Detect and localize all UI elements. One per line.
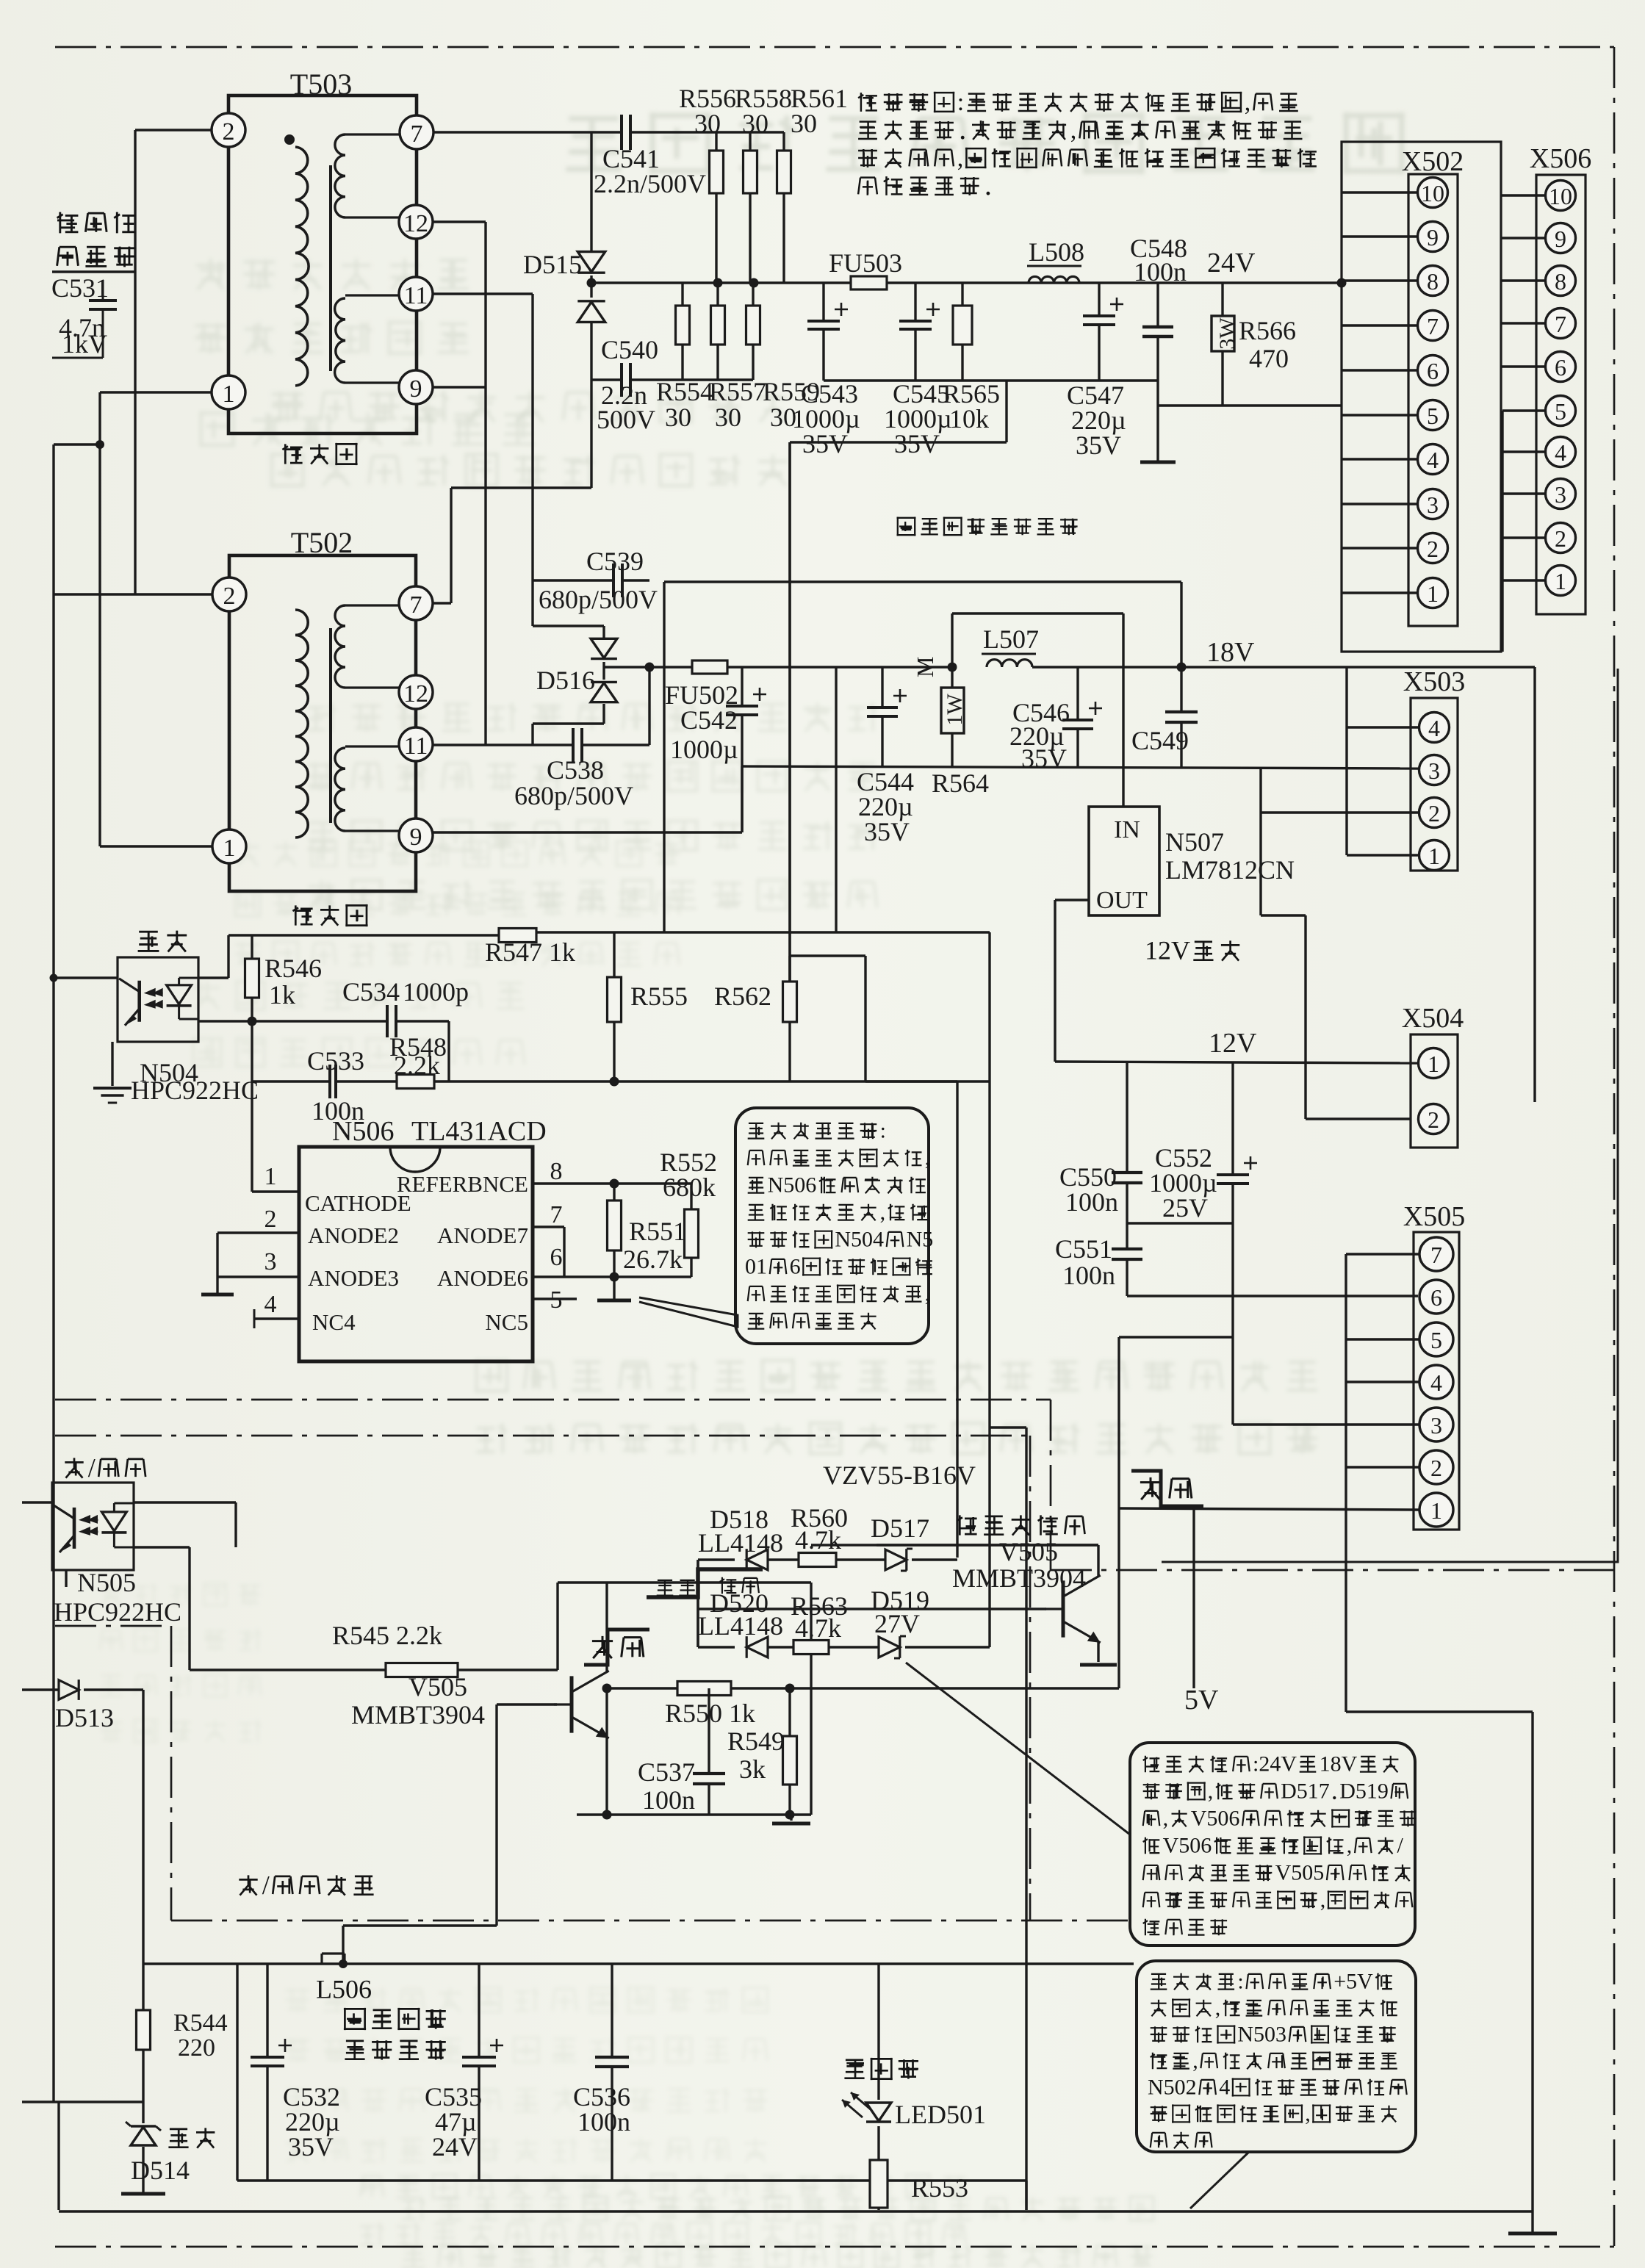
label stabilize [138,932,159,951]
zener D514 regulator [131,2125,156,2127]
capacitor C537 [708,1688,710,1774]
junction D515 bus [587,278,597,288]
svg-text:9: 9 [410,824,422,851]
label switch above V505 [592,1636,613,1658]
svg-text:9: 9 [1427,224,1439,251]
X502 pin 1 [1418,578,1448,608]
fuse FU502 [692,660,727,674]
svg-text:MMBT3904: MMBT3904 [351,1700,485,1729]
svg-text:12: 12 [403,210,428,237]
capacitor C534 [386,1005,389,1037]
resistor R553 [870,2160,888,2208]
branch to bottom net [990,1426,1026,1428]
svg-text:9: 9 [410,375,422,403]
transformer T503 box [228,96,417,433]
N506 pin4 stub [254,1317,299,1320]
svg-text:220: 220 [178,2034,215,2062]
bottom long return [59,2210,1533,2212]
wire into N505 [22,1501,52,1503]
link C550 C552 [1127,1222,1233,1224]
label on/off opto [65,1458,83,1477]
V506 emitter ground [1097,1641,1099,1662]
sample line to R547 [228,934,499,936]
svg-text:NC5: NC5 [485,1309,528,1335]
feedback right corner down to D517 chain [956,1081,958,1558]
wire R566 bottom to connector [1158,404,1342,406]
callout tail 1 [906,1663,1130,1835]
wire T503 pin1 to left rail [100,391,212,393]
svg-text:6: 6 [1430,1284,1442,1311]
X502 pin 6 wire [1342,369,1418,371]
svg-text:N505: N505 [77,1568,136,1597]
wire T502 pin11 line with C538 [433,744,573,746]
sample line continues [536,931,990,933]
wire N505 right top [134,1501,236,1503]
svg-text:1k: 1k [269,980,295,1009]
wire left to R544 D514 node [22,2100,143,2103]
maintenance hint text [858,93,877,112]
svg-text:2: 2 [223,118,235,145]
svg-text:X504: X504 [1402,1003,1464,1034]
N506 pin8 reference wire [533,1182,691,1184]
junction 24V node [1337,278,1347,288]
resistor R565 [961,283,963,306]
divider dash-dot upper [55,1399,1051,1401]
capacitor C547 [1098,283,1100,316]
return wire to T502 pin9 [433,831,742,833]
X504 pin 2 [1419,1104,1449,1134]
svg-text:ANODE7: ANODE7 [437,1223,528,1248]
svg-text:1: 1 [1428,843,1440,869]
svg-text:12: 12 [403,680,428,708]
svg-text:LM7812CN: LM7812CN [1165,855,1295,885]
svg-text:R562: R562 [714,982,771,1011]
T503 primary winding [295,147,309,386]
collector line drop right [810,1583,812,1815]
junction L507 node [948,663,957,672]
svg-text:7: 7 [1427,313,1439,339]
T503 pin 1 [212,375,245,409]
overvoltage protect labels [957,1515,976,1535]
12V rail [1055,1062,1419,1063]
junction dots on bus [713,278,723,288]
svg-text:12V: 12V [1209,1028,1257,1059]
X505 pin4 stub [1346,1380,1419,1383]
X502 pin 8 wire [1342,279,1418,281]
V506 base line [698,1558,735,1560]
svg-text:6: 6 [550,1244,563,1271]
X505 left bus [1345,1254,1347,1712]
svg-text:3: 3 [1427,492,1439,518]
svg-text:N507: N507 [1165,827,1224,857]
sampling feed from C542 node [788,442,791,982]
X506 pin 5 wire [1502,409,1546,411]
X503 pin 4 [1419,713,1450,743]
svg-text:CATHODE: CATHODE [305,1190,411,1216]
X502 pin 2 wire [1342,547,1418,549]
svg-text:4: 4 [1427,447,1439,473]
svg-text:1000p: 1000p [403,977,469,1007]
svg-text:C533: C533 [307,1046,364,1076]
svg-text:2: 2 [1555,525,1566,552]
svg-text:3: 3 [1428,757,1440,784]
connector X503 box [1411,698,1458,871]
X505 pin7 stub [1346,1253,1419,1255]
svg-text:4: 4 [1219,2076,1230,2100]
R551 R552 bottom link [564,1275,691,1278]
X502 pin 6 [1418,356,1448,386]
X503 pin 3 [1419,755,1450,785]
T502 secondary winding upper [345,604,400,606]
svg-text:1: 1 [1428,1051,1439,1077]
X502 pin 7 [1418,311,1448,341]
T503 secondary winding lower [345,294,399,296]
svg-text:3: 3 [264,1248,277,1275]
T503 secondary winding upper [345,133,400,135]
wire N505 right bottom to R545 [134,1546,190,1548]
V505 emitter down [605,1737,608,1815]
svg-text:V505: V505 [1275,1861,1325,1885]
svg-text:8: 8 [550,1158,563,1185]
svg-text:,: , [1305,2102,1311,2126]
resistor R547 [499,929,536,943]
svg-text:,: , [1163,1807,1169,1831]
svg-text:1: 1 [264,1163,277,1190]
IC N506 TL431ACD box [299,1147,533,1361]
T502 primary winding [295,610,308,838]
svg-text:470: 470 [1249,344,1289,373]
rounded callout box regulation control [735,1108,929,1344]
svg-text:4.7k: 4.7k [795,1613,841,1643]
svg-text:35V: 35V [802,429,848,458]
svg-text:35V: 35V [288,2132,334,2161]
svg-text:NC4: NC4 [312,1309,356,1335]
X503 pin4 feed [1345,667,1347,855]
svg-text:M: M [912,657,938,677]
T502 pin 11 [399,727,433,761]
svg-text:4.7k: 4.7k [795,1525,841,1555]
svg-text:N504: N504 [835,1228,884,1252]
X503 pin2 feed [1259,768,1261,915]
svg-text:7: 7 [410,591,422,619]
svg-text:V506: V506 [1163,1834,1212,1858]
wire N504 right bottom cathode line [198,1020,387,1022]
connector X504 box [1411,1034,1458,1148]
wire rect top to N507 IN [952,612,1123,614]
svg-text:N503: N503 [1237,2023,1286,2047]
X506 pin 4 [1546,437,1576,467]
svg-text:R553: R553 [911,2173,968,2203]
svg-text:D516: D516 [536,666,595,695]
svg-text:C551: C551 [1055,1234,1112,1264]
N506 pin2 pin3 ground bracket [217,1231,299,1234]
N506 pin5 stub [533,1297,577,1300]
resistor R551 [610,1179,619,1189]
ground return line mid [577,1813,811,1815]
wire T503 pin2 left and down [135,129,212,131]
wire 24V to connector [1158,281,1342,284]
svg-text:HPC922HC: HPC922HC [54,1597,181,1627]
ground under R551 [613,1277,615,1299]
svg-text:30: 30 [742,109,768,138]
svg-text:5: 5 [1555,398,1566,425]
callout tail 2 [1190,2152,1249,2208]
wire T502 pin2 line [53,593,212,595]
label transformer T503 [282,444,302,464]
X505 pin 5 [1419,1322,1453,1356]
left rail down [52,444,54,2102]
svg-text:,: , [1245,89,1251,116]
V506 collector up [1097,1545,1099,1577]
svg-text:T503: T503 [290,68,352,101]
X505 pin2 stub [1346,1466,1419,1468]
svg-text:R545 2.2k: R545 2.2k [332,1621,442,1650]
svg-text:8: 8 [1555,268,1566,295]
svg-text:C534: C534 [342,977,400,1007]
X506 pin 2 [1546,523,1576,553]
X506 pin 5 [1546,396,1576,426]
main low bus [143,1962,1134,1965]
V506 base wire [698,1608,1046,1610]
label secondary rectifier filter 2 [344,2008,366,2030]
X506 pin 9 [1546,223,1576,253]
X502 pin 3 wire [1342,503,1418,505]
resistor R545 [190,1668,386,1671]
svg-text:4: 4 [264,1291,277,1318]
svg-text:LED501: LED501 [895,2100,986,2129]
main 24V bus [591,281,851,284]
svg-text:30: 30 [715,403,741,432]
divider dash-dot bottom-left [55,1625,171,1627]
X506 pin 1 wire [1502,579,1546,581]
resistor R561 [782,132,785,151]
V505 collector [605,1583,608,1672]
X505 pin1 feed / 5V riser [1119,1336,1233,1338]
X502 pin 2 [1418,533,1448,564]
capacitor C540 on lower link [591,378,622,381]
svg-text:IN: IN [1114,816,1140,843]
capacitor C541 [620,115,623,150]
D516 mid tap to fuse node [604,666,649,668]
T502 pin 1 [212,829,246,863]
X504 feed [1261,914,1306,916]
page top dash-dot border [55,46,1614,48]
X502 pin 1 wire [1342,591,1418,594]
svg-text:2: 2 [1428,1106,1439,1133]
label switch kaiguan right [1140,1477,1161,1500]
ground under return line [790,1815,792,1821]
X502 pin 5 [1418,400,1448,431]
label spike pulse absorb [57,212,79,234]
svg-text:6: 6 [790,1255,801,1279]
svg-text:N506: N506 [768,1173,817,1198]
svg-text:3: 3 [1430,1412,1442,1439]
capacitor C551 [1112,1248,1142,1250]
svg-text:5: 5 [1430,1327,1442,1353]
D513 wire down [84,1688,143,1691]
wire T503 pin9 stub [433,386,486,388]
X502 pin 4 [1418,444,1448,475]
optocoupler N504 [118,957,198,1042]
page bottom dash-dot border [55,2246,1614,2248]
svg-text:30: 30 [791,109,817,138]
svg-text:,: , [925,1282,931,1306]
resistor R566 3W [1221,283,1223,316]
18V feeder from upper area [664,580,1181,583]
X505 pin 1 [1419,1493,1453,1527]
junction 18V [1177,663,1187,672]
capacitor C533 [328,1065,331,1098]
T503 core [329,165,332,371]
svg-text:24V: 24V [1207,248,1256,278]
ground rail right [1533,667,1536,1102]
wire pin7 T503 to C541 and resistors [433,131,622,133]
svg-text:35V: 35V [894,429,940,458]
svg-text::24V: :24V [1253,1752,1297,1776]
svg-text:+5V: +5V [1333,1970,1373,1994]
X505 pin3 feed [1233,1423,1419,1425]
svg-text:10: 10 [1549,183,1572,209]
svg-text:,: , [925,1146,931,1170]
capacitor C542 [741,667,743,706]
svg-text:D514: D514 [131,2156,190,2185]
svg-text:C537: C537 [638,1757,695,1787]
X502 pin 9 wire [1342,235,1418,237]
return drop to FU502 area [1005,381,1007,442]
svg-text:35V: 35V [1076,431,1121,460]
X506 pin 10 [1546,181,1576,211]
svg-text:1: 1 [1430,1497,1442,1524]
X502 pin 3 [1418,489,1448,519]
resistor R549 [785,1684,795,1693]
X506 pin 3 wire [1502,492,1546,494]
svg-text:500V: 500V [597,405,655,434]
LED arrows [842,2100,863,2117]
svg-text:1: 1 [1555,568,1566,594]
svg-text:X506: X506 [1530,143,1591,174]
capacitor C538 [572,728,575,762]
X506 pin 7 [1546,309,1576,339]
capacitor C544 [881,667,883,708]
svg-text:HPC922HC: HPC922HC [131,1076,259,1105]
svg-text:2: 2 [1430,1455,1442,1481]
svg-text:/: / [262,1871,270,1900]
svg-text:4: 4 [1555,439,1566,466]
svg-text:3W: 3W [1215,317,1239,350]
svg-text:8: 8 [1427,268,1439,295]
X505 pin 7 [1419,1237,1453,1271]
T503 pin 11 [399,277,433,311]
svg-text:VZV55-B16V: VZV55-B16V [823,1461,976,1490]
X505 pin 4 [1419,1365,1453,1399]
X505 pin5 stub [1346,1338,1419,1340]
svg-text::: : [957,89,964,116]
resistor R546 [251,935,253,959]
X505 pin 6 [1419,1280,1453,1314]
svg-text:R551: R551 [629,1217,686,1246]
X503 pin 1 [1419,840,1450,871]
svg-text:7: 7 [1430,1242,1442,1268]
svg-text:N502: N502 [1148,2076,1197,2100]
wire C531 top [52,270,135,273]
wire C538 node up to fuse node [648,667,650,745]
svg-text:X503: X503 [1403,666,1465,697]
svg-text:9: 9 [1555,226,1566,252]
svg-text:30: 30 [665,403,691,432]
filter box left [236,1964,238,2181]
svg-text:ANODE2: ANODE2 [308,1223,399,1248]
svg-text:D517: D517 [1281,1779,1330,1804]
resistor R562 [788,956,791,982]
svg-text:1000µ: 1000µ [670,735,738,764]
collector top line [558,1581,811,1583]
svg-text:680p/500V: 680p/500V [539,585,658,614]
N506 pin1 wire [252,1190,299,1192]
X503 pin 2 [1419,798,1450,828]
svg-text:D517: D517 [871,1513,929,1543]
X505 pin 2 [1419,1450,1453,1484]
svg-text::: : [880,1119,886,1143]
cable rectangle around X502 [1342,142,1501,652]
wire N507 OUT to 12V rail [1055,899,1089,901]
X506 pin 4 wire [1502,450,1546,453]
svg-text:7: 7 [550,1201,563,1228]
svg-text:R546: R546 [264,954,322,983]
stub left rail [54,443,100,445]
svg-text:R555: R555 [630,982,688,1011]
svg-text:R549: R549 [727,1727,785,1756]
X506 pin 1 [1546,566,1576,596]
lower protect chain wire [696,1560,699,1647]
svg-text:L508: L508 [1029,237,1084,267]
transformer T502 box [229,555,416,891]
X506 pin 8 wire [1501,279,1546,281]
svg-text:/: / [1397,1834,1404,1858]
inductor L506 bump [320,1954,323,1964]
svg-text:100n: 100n [642,1785,695,1815]
svg-text:C531: C531 [51,273,109,303]
wire C539 left jog to D516 [531,580,533,626]
X502 pin 9 [1418,222,1448,252]
bottom net riser [1025,2181,1027,2210]
svg-text:1W: 1W [943,694,967,726]
T503 pin 7 [400,115,433,149]
T503 pin 12 [399,205,433,239]
5V wire [607,1687,1119,1689]
LED501 indicator [877,1964,879,2100]
capacitor C552 [1231,1062,1234,1175]
svg-text:26.7k: 26.7k [623,1245,683,1274]
svg-text:V505: V505 [999,1537,1058,1566]
svg-text:LL4148: LL4148 [698,1611,783,1641]
R562 top jog [790,954,865,957]
X502 pin 10 wire [1342,191,1418,193]
svg-text:2: 2 [264,1206,277,1233]
svg-text:X502: X502 [1402,146,1464,177]
resistor R548 [397,1075,434,1089]
svg-text:,: , [1192,2049,1198,2073]
svg-text:1: 1 [223,835,236,862]
svg-text:100n: 100n [1065,1187,1118,1217]
IC N507 LM7812CN box [1089,807,1159,915]
svg-text:24V: 24V [432,2132,478,2161]
T503 phase dot [284,134,295,145]
X506 pin 10 wire [1501,194,1546,196]
svg-text:R557: R557 [709,377,766,406]
connector X502 box [1408,174,1458,626]
T502 pin 9 [399,818,433,852]
svg-text:MMBT3904: MMBT3904 [952,1563,1086,1593]
